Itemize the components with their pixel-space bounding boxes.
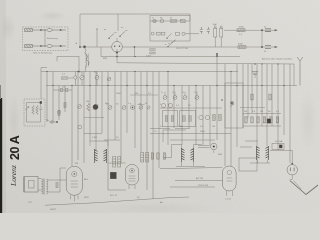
IF transformer windings (hatched) — [113, 153, 149, 168]
trimmer capacitor C9 — [108, 106, 112, 110]
wire: drop to antenna node — [79, 14, 81, 47]
electrolytic capacitors 2x 8uF — [214, 28, 217, 37]
wire: mid horizontal buses — [41, 67, 47, 69]
svg-text:Entstörung: Entstörung — [47, 37, 58, 40]
filter choke/cap row bottom — [25, 45, 67, 48]
trimmer capacitor C5 — [173, 96, 177, 100]
svg-text:Tr: Tr — [161, 91, 163, 94]
svg-text:1M: 1M — [86, 101, 89, 103]
mains plug and cord — [287, 165, 297, 175]
node: heavy junction stub — [216, 53, 218, 57]
svg-text:ECL 11: ECL 11 — [110, 195, 118, 197]
svg-text:w₂: w₂ — [121, 27, 124, 29]
winding L9 — [47, 179, 48, 194]
resistor R26 — [157, 153, 160, 159]
coil L2 — [95, 149, 98, 163]
trimmer capacitor C6 — [183, 96, 187, 100]
resistor R20 — [276, 117, 279, 123]
resistor R18 — [263, 117, 266, 123]
pickup (Tonabnehmer) input filter box — [24, 99, 45, 126]
svg-text:5W78: 5W78 — [50, 209, 56, 211]
capacitors: small pair y=90 — [53, 89, 72, 91]
component value labels (tiny) — [28, 18, 293, 211]
output stage resistor bank — [243, 114, 281, 127]
IF transformer can (box) — [225, 83, 243, 128]
svg-text:220V: 220V — [146, 56, 152, 58]
wire: interconnect segments — [150, 128, 190, 130]
trimmer capacitor C12 — [147, 106, 150, 109]
winding L8 — [42, 179, 43, 194]
svg-text:1M: 1M — [260, 111, 263, 113]
trimmer capacitor C10 — [122, 106, 126, 110]
resistor R16 — [251, 117, 254, 123]
trimmer capacitor C4 — [163, 96, 167, 100]
wire: vertical wiring comb — [47, 57, 290, 200]
resistor R7 — [238, 46, 246, 49]
wire: LW band bus y=63 — [116, 53, 118, 62]
resistor R28 — [56, 182, 58, 187]
svg-text:5000: 5000 — [239, 27, 245, 29]
svg-text:Tr: Tr — [182, 91, 184, 94]
resistor R5 — [150, 52, 156, 54]
svg-text:2M: 2M — [75, 163, 78, 165]
fuse Si 0,5A and wire to mains plug — [272, 144, 284, 150]
rectifier tube V4 AZ11 — [223, 166, 237, 191]
svg-text:Antenne über eingeb. Kondens.: Antenne über eingeb. Kondens. — [262, 58, 293, 61]
svg-text:5000: 5000 — [200, 131, 206, 133]
wire: bottom centre frame — [163, 130, 186, 142]
antenna symbol — [297, 57, 303, 86]
capacitors: bracket caps — [200, 27, 210, 34]
svg-text:2000: 2000 — [116, 93, 122, 95]
node: antenna junction — [79, 46, 81, 48]
small parts below pickup box — [49, 121, 56, 123]
scan page-edge black bar — [0, 98, 2, 213]
resistor R3 — [170, 20, 177, 22]
svg-text:POB 1203: POB 1203 — [198, 185, 209, 187]
filter choke/cap row top — [25, 29, 67, 32]
svg-text:Netz m. Entstörung: Netz m. Entstörung — [33, 52, 53, 55]
wire: upper-left feed — [57, 56, 79, 71]
svg-text:20 A: 20 A — [8, 135, 22, 160]
node: bus junction dots — [46, 56, 284, 86]
svg-text:Lorenz: Lorenz — [9, 165, 18, 187]
resistor R10 — [171, 116, 173, 122]
capacitor: electrolytic block — [110, 172, 116, 179]
capacitor: electrolytic with plates — [252, 72, 258, 74]
resistor R4 — [150, 49, 156, 51]
svg-text:L 4.21: L 4.21 — [225, 199, 232, 201]
svg-text:Tr: Tr — [172, 91, 174, 94]
oscillator section boxes — [160, 107, 222, 109]
resistor R14 — [219, 114, 222, 120]
svg-text:AZ 780: AZ 780 — [196, 177, 204, 180]
trimmer capacitor C8 — [78, 105, 82, 109]
output tube V3 AL4 — [66, 166, 82, 195]
mains transformer box T1 — [150, 16, 190, 42]
resistor R22 — [269, 94, 271, 100]
wire: top horizontal bus y=14 — [80, 13, 190, 15]
dial lamp / input tube V1 — [112, 42, 123, 53]
tube V2 ECL11 — [126, 165, 139, 186]
resistor R1 — [25, 29, 33, 32]
coil L3 — [104, 149, 107, 163]
paper smudges (decorative) — [38, 11, 66, 21]
svg-text:Si 0,5A: Si 0,5A — [275, 140, 283, 143]
resistor R9 — [165, 116, 167, 122]
resistor R23 — [58, 110, 60, 115]
resistor R13 — [213, 114, 216, 120]
svg-text:W18: W18 — [84, 197, 89, 199]
antenna coil to ground — [83, 46, 85, 48]
svg-text:AO: AO — [160, 201, 163, 204]
resistor R2 — [25, 45, 33, 48]
resistor R11 — [183, 116, 185, 122]
svg-text:5000: 5000 — [238, 44, 244, 46]
svg-text:1M: 1M — [212, 126, 215, 128]
mixer/volume control row — [87, 104, 90, 111]
svg-text:Dr: Dr — [264, 50, 267, 53]
svg-text:110 127 150: 110 127 150 — [176, 48, 189, 50]
wire: drop to switch / transformer — [117, 14, 119, 31]
trimmer capacitor C2 — [95, 76, 99, 80]
wire: filter link — [44, 30, 46, 46]
svg-text:0,5M: 0,5M — [92, 137, 97, 139]
resistor R12 — [189, 116, 191, 122]
coil L7 — [266, 146, 269, 160]
coil L6 — [257, 146, 260, 160]
wire: main RF line y=47 — [80, 46, 112, 48]
resistor R8 — [61, 77, 67, 79]
wire: MW band bus y=56.5 — [100, 47, 102, 57]
svg-text:Tr: Tr — [194, 91, 196, 94]
trimmer capacitor C3 — [107, 77, 111, 81]
resistor R17 — [257, 117, 260, 123]
resistor R21 — [251, 94, 253, 100]
resistor R25 — [151, 153, 154, 159]
svg-text:2M: 2M — [244, 111, 247, 113]
svg-text:5000: 5000 — [178, 126, 184, 128]
resistor R19 — [270, 117, 273, 123]
trimmer capacitor C1 — [80, 75, 84, 79]
resistor R6 — [237, 29, 245, 32]
loudspeaker with output transformer — [24, 177, 38, 193]
resistor R15 — [245, 117, 248, 123]
filter enclosure (dashed) — [23, 27, 69, 51]
wire: HT output line with arrow — [224, 29, 277, 31]
resistor R27 — [163, 153, 166, 159]
wave-band switch S1 — [96, 30, 98, 47]
winding L1 — [86, 54, 87, 68]
trimmer capacitor C7 — [195, 96, 199, 100]
resistor R24 — [64, 102, 66, 107]
coil L4 — [182, 148, 185, 162]
svg-text:w₁: w₁ — [104, 29, 107, 31]
svg-text:8μF: 8μF — [213, 24, 217, 26]
svg-text:Dr: Dr — [264, 26, 267, 29]
svg-text:1M: 1M — [135, 93, 138, 95]
trimmer capacitor C11 — [139, 106, 143, 110]
wire: bottom ground bus (sloped) — [45, 197, 189, 205]
coil L5 — [191, 148, 194, 162]
